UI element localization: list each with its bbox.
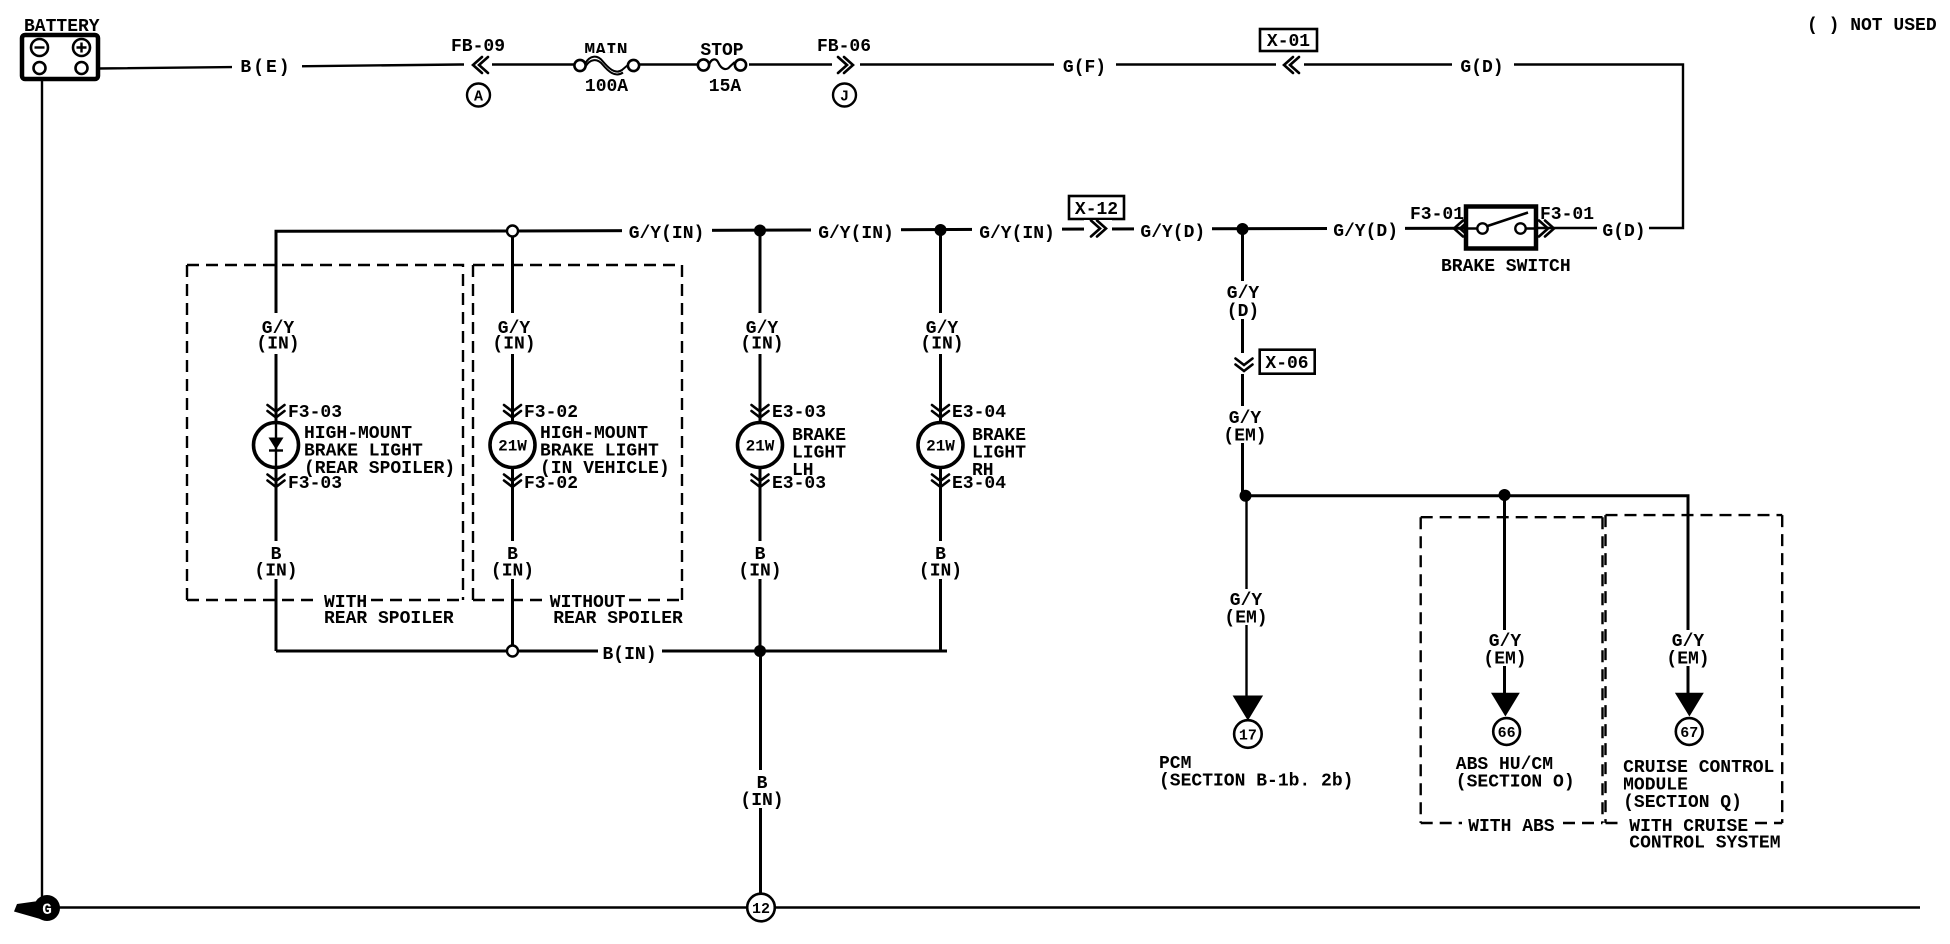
svg-text:B(IN): B(IN) bbox=[602, 645, 656, 665]
dashed option box WITHOUT REAR SPOILER bbox=[473, 265, 683, 629]
lamp L4 brake light RH 21W bbox=[917, 313, 1026, 582]
svg-text:CONTROL SYSTEM: CONTROL SYSTEM bbox=[1629, 834, 1780, 854]
svg-text:X-12: X-12 bbox=[1075, 200, 1118, 220]
junction G/Y(EM) split bbox=[1240, 490, 1252, 502]
svg-text:F3-01: F3-01 bbox=[1540, 205, 1594, 225]
module CRUISE CONTROL MODULE label bbox=[1623, 758, 1774, 813]
battery B+ terminal block bbox=[22, 17, 100, 79]
dashed option box WITH CRUISE CONTROL SYSTEM bbox=[1606, 515, 1783, 853]
wire G/Y(EM) to ABS bbox=[1503, 496, 1506, 694]
svg-text:(IN): (IN) bbox=[256, 335, 299, 355]
svg-text:FB-06: FB-06 bbox=[817, 37, 871, 57]
svg-text:G(F): G(F) bbox=[1063, 58, 1106, 78]
svg-text:( ) NOT USED: ( ) NOT USED bbox=[1807, 16, 1937, 36]
wire G/Y(D) vertical below junction bbox=[1241, 229, 1244, 497]
wire B(IN) down to joint 12 bbox=[759, 651, 762, 894]
svg-text:J: J bbox=[840, 89, 849, 106]
wire lamp3 vertical (brake light LH) bbox=[759, 229, 762, 652]
connector X-01 bbox=[1260, 29, 1317, 74]
joint open circle B(IN) lamp2 bbox=[507, 646, 518, 657]
dashed option box WITH ABS bbox=[1421, 517, 1603, 837]
module ABS HU/CM label bbox=[1456, 755, 1575, 793]
fuse MAIN 100A bbox=[574, 41, 640, 97]
svg-text:21W: 21W bbox=[746, 438, 775, 456]
joint 17 PCM bbox=[1234, 720, 1262, 748]
svg-text:G/Y(D): G/Y(D) bbox=[1333, 222, 1398, 242]
connector FB-06 bbox=[817, 37, 871, 107]
node G(F) label bbox=[1054, 55, 1116, 78]
junction row2 at G/Y(D) branch bbox=[1237, 223, 1249, 235]
svg-text:G/Y: G/Y bbox=[1227, 284, 1260, 304]
node G(D) top label bbox=[1452, 55, 1514, 78]
connector X-12 bbox=[1069, 196, 1124, 238]
wire G/Y(EM) to PCM bbox=[1245, 496, 1247, 697]
joint 67 cruise bbox=[1676, 718, 1703, 745]
wire B(E)/G(F)/G(D) top feed from battery to right corner down to brake switch bbox=[98, 65, 1683, 229]
svg-text:(IN): (IN) bbox=[919, 562, 962, 582]
wire lamp4 vertical (brake light RH) bbox=[939, 229, 942, 652]
svg-text:BRAKE SWITCH: BRAKE SWITCH bbox=[1441, 257, 1571, 277]
svg-text:(SECTION O): (SECTION O) bbox=[1456, 773, 1575, 793]
svg-text:(IN): (IN) bbox=[740, 791, 783, 811]
lamp L1 high-mount brake light (rear spoiler) bbox=[252, 313, 455, 582]
node G/Y(IN) label 1 bbox=[622, 219, 712, 244]
svg-text:X-01: X-01 bbox=[1267, 32, 1310, 52]
svg-text:12: 12 bbox=[752, 901, 770, 918]
node G/Y(EM) cruise label bbox=[1665, 630, 1711, 670]
svg-text:(IN): (IN) bbox=[254, 562, 297, 582]
node G/Y(EM) PCM label bbox=[1224, 589, 1270, 629]
svg-text:G(D): G(D) bbox=[1602, 222, 1645, 242]
node G/Y(D) label right bbox=[1327, 220, 1405, 242]
svg-text:X-06: X-06 bbox=[1265, 354, 1308, 374]
node G/Y(IN) label 3 bbox=[972, 219, 1062, 244]
svg-text:E3-03: E3-03 bbox=[772, 403, 826, 423]
svg-text:(IN): (IN) bbox=[492, 335, 535, 355]
node B(IN) label bbox=[598, 642, 662, 665]
svg-text:F3-02: F3-02 bbox=[524, 403, 578, 423]
svg-text:100A: 100A bbox=[585, 77, 628, 97]
svg-text:FB-09: FB-09 bbox=[451, 37, 505, 57]
junction B(IN) at lamp3 bbox=[754, 645, 766, 657]
svg-text:G(D): G(D) bbox=[1460, 58, 1503, 78]
node G/Y(IN) label 2 bbox=[811, 219, 901, 244]
svg-text:67: 67 bbox=[1680, 725, 1698, 742]
svg-text:F3-01: F3-01 bbox=[1410, 205, 1464, 225]
wire battery negative to ground bbox=[41, 79, 43, 908]
junction row2 at lamp3 bbox=[754, 225, 766, 237]
node G/Y(EM) ABS label bbox=[1482, 630, 1528, 670]
joint 66 ABS bbox=[1493, 718, 1520, 745]
arrow to cruise control module bbox=[1675, 693, 1704, 717]
svg-text:LH: LH bbox=[792, 461, 814, 481]
svg-text:17: 17 bbox=[1239, 728, 1257, 745]
connector X-06 bbox=[1232, 350, 1315, 374]
svg-text:G/Y(D): G/Y(D) bbox=[1140, 223, 1205, 243]
wire B(IN) bottom collector of lamps bbox=[276, 650, 947, 653]
svg-text:A: A bbox=[474, 89, 483, 106]
svg-text:(REAR SPOILER): (REAR SPOILER) bbox=[304, 459, 455, 479]
wire lamp2 vertical (high-mount in vehicle) bbox=[511, 233, 514, 646]
svg-text:(SECTION B-1b. 2b): (SECTION B-1b. 2b) bbox=[1159, 772, 1353, 792]
svg-text:(SECTION Q): (SECTION Q) bbox=[1623, 793, 1742, 813]
wire G/Y(EM) horizontal distribution bbox=[1243, 496, 1688, 694]
lamp L2 high-mount brake light (in vehicle) 21W bbox=[489, 313, 670, 582]
svg-text:REAR SPOILER: REAR SPOILER bbox=[553, 609, 683, 629]
svg-text:F3-03: F3-03 bbox=[288, 403, 342, 423]
node B(IN) lower label bbox=[736, 770, 786, 811]
joint 12 bbox=[747, 894, 775, 922]
arrow to ABS bbox=[1491, 693, 1520, 717]
svg-text:G/Y(IN): G/Y(IN) bbox=[979, 224, 1055, 244]
fuse STOP 15A bbox=[697, 41, 749, 97]
wire ground bus bottom bbox=[55, 906, 1920, 908]
svg-text:(IN VEHICLE): (IN VEHICLE) bbox=[540, 459, 670, 479]
svg-text:(EM): (EM) bbox=[1666, 650, 1709, 670]
connector FB-09 bbox=[451, 37, 505, 107]
wire G/Y(IN) second row from brake switch left side to high-mount brake light branch bbox=[276, 228, 1466, 651]
brake switch SW bbox=[1441, 207, 1571, 278]
connector F3-01 right of brake switch bbox=[1539, 205, 1594, 237]
svg-text:RH: RH bbox=[972, 461, 994, 481]
svg-text:E3-04: E3-04 bbox=[952, 403, 1006, 423]
svg-text:(IN): (IN) bbox=[738, 562, 781, 582]
node G/Y(EM) vertical label bbox=[1222, 406, 1270, 447]
joint open circle row2 lamp2 bbox=[507, 226, 518, 237]
svg-text:21W: 21W bbox=[498, 438, 527, 456]
node G/Y(D) vertical label bbox=[1222, 281, 1266, 322]
svg-text:G/Y(IN): G/Y(IN) bbox=[818, 224, 894, 244]
node G(D) lower label bbox=[1597, 220, 1649, 242]
svg-text:66: 66 bbox=[1498, 725, 1516, 742]
module PCM label bbox=[1159, 754, 1353, 792]
svg-text:(IN): (IN) bbox=[920, 335, 963, 355]
svg-text:(IN): (IN) bbox=[740, 335, 783, 355]
svg-text:G/Y(IN): G/Y(IN) bbox=[629, 224, 705, 244]
svg-text:BATTERY: BATTERY bbox=[24, 17, 100, 37]
junction G/Y(EM) at ABS branch bbox=[1499, 489, 1511, 501]
svg-text:(EM): (EM) bbox=[1224, 609, 1267, 629]
lamp L3 brake light LH 21W bbox=[737, 313, 846, 582]
svg-text:(EM): (EM) bbox=[1483, 650, 1526, 670]
svg-text:15A: 15A bbox=[709, 77, 742, 97]
ground G bbox=[14, 895, 60, 921]
dashed option box WITH REAR SPOILER bbox=[187, 265, 463, 629]
svg-text:REAR SPOILER: REAR SPOILER bbox=[324, 609, 454, 629]
connector F3-01 left of brake switch bbox=[1410, 205, 1469, 237]
node G/Y(D) label left bbox=[1134, 220, 1212, 243]
svg-text:WITH ABS: WITH ABS bbox=[1468, 817, 1555, 837]
svg-text:(IN): (IN) bbox=[491, 562, 534, 582]
node B(E) label bbox=[232, 55, 302, 78]
svg-text:B(E): B(E) bbox=[240, 58, 291, 78]
svg-text:G: G bbox=[42, 901, 52, 919]
arrow to PCM bbox=[1233, 696, 1264, 721]
svg-text:21W: 21W bbox=[926, 438, 955, 456]
svg-text:(D): (D) bbox=[1227, 302, 1259, 322]
svg-text:(EM): (EM) bbox=[1223, 427, 1266, 447]
junction row2 at lamp4 bbox=[935, 224, 947, 236]
